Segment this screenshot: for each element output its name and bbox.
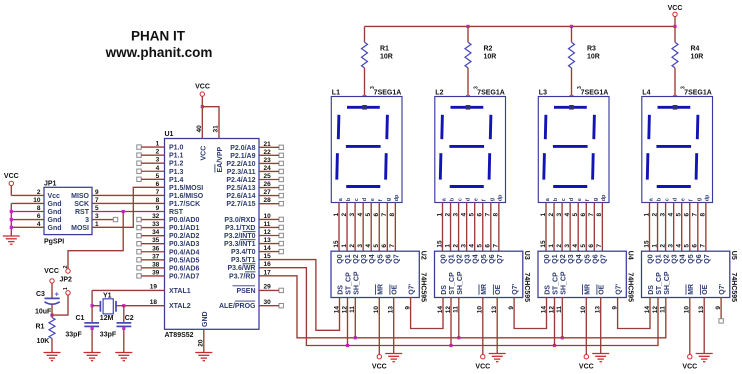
- svg-text:c: c: [664, 198, 670, 201]
- svg-text:15: 15: [540, 240, 547, 248]
- svg-text:12M: 12M: [100, 315, 114, 322]
- svg-text:16: 16: [264, 261, 272, 268]
- svg-text:C1: C1: [76, 315, 85, 322]
- svg-text:R4: R4: [691, 46, 700, 53]
- svg-text:40: 40: [196, 125, 203, 133]
- svg-text:1: 1: [341, 244, 348, 248]
- svg-text:7: 7: [596, 244, 603, 248]
- svg-text:P1.3: P1.3: [169, 169, 184, 176]
- svg-text:P1.6/MISO: P1.6/MISO: [169, 193, 204, 200]
- svg-text:VCC: VCC: [475, 364, 490, 371]
- svg-text:MOSI: MOSI: [71, 225, 89, 232]
- svg-text:74HC595: 74HC595: [420, 273, 427, 303]
- svg-text:ST_CP: ST_CP: [656, 272, 663, 295]
- svg-text:SH_CP: SH_CP: [664, 271, 671, 295]
- svg-text:Q7: Q7: [704, 254, 711, 263]
- svg-text:33pF: 33pF: [100, 332, 117, 339]
- svg-text:c: c: [457, 198, 463, 201]
- svg-text:DS: DS: [648, 285, 655, 295]
- svg-text:d: d: [465, 198, 471, 201]
- svg-text:Q5: Q5: [481, 254, 488, 263]
- svg-text:Q6: Q6: [385, 254, 392, 263]
- svg-text:VCC: VCC: [372, 364, 387, 371]
- svg-text:d: d: [672, 198, 678, 201]
- svg-text:P0.4/AD4: P0.4/AD4: [169, 249, 199, 256]
- svg-text:Q7: Q7: [600, 254, 607, 263]
- svg-text:VCC: VCC: [668, 5, 683, 12]
- svg-text:Q3: Q3: [465, 254, 472, 263]
- svg-text:dp: dp: [394, 194, 400, 201]
- svg-text:10uF: 10uF: [35, 309, 52, 316]
- svg-text:5: 5: [684, 244, 691, 248]
- svg-text:RST: RST: [75, 209, 90, 216]
- svg-text:MR: MR: [688, 284, 695, 295]
- svg-text:Q7': Q7': [616, 283, 623, 294]
- svg-text:P0.1/AD1: P0.1/AD1: [169, 225, 199, 232]
- svg-text:Q0: Q0: [337, 254, 344, 263]
- svg-text:Q3: Q3: [672, 254, 679, 263]
- svg-text:VCC: VCC: [44, 268, 59, 275]
- svg-text:18: 18: [150, 299, 158, 306]
- svg-text:33pF: 33pF: [65, 332, 82, 339]
- svg-text:P3.1/TXD: P3.1/TXD: [225, 225, 255, 232]
- svg-text:Q4: Q4: [473, 254, 480, 263]
- svg-text:P3.4/T0: P3.4/T0: [231, 249, 256, 256]
- svg-text:d: d: [569, 198, 575, 201]
- svg-text:P2.5/A13: P2.5/A13: [226, 185, 255, 192]
- svg-text:e: e: [577, 198, 583, 201]
- svg-text:f: f: [689, 199, 695, 201]
- svg-text:Q3: Q3: [361, 254, 368, 263]
- svg-text:3: 3: [667, 244, 674, 248]
- svg-text:1: 1: [444, 244, 451, 248]
- svg-text:SH_CP: SH_CP: [560, 271, 567, 295]
- svg-text:MR: MR: [377, 284, 384, 295]
- svg-text:g: g: [593, 198, 599, 201]
- svg-text:P0.2/AD2: P0.2/AD2: [169, 233, 199, 240]
- svg-text:Q4: Q4: [369, 254, 376, 263]
- svg-text:d: d: [362, 198, 368, 201]
- svg-text:Q6: Q6: [592, 254, 599, 263]
- svg-text:1: 1: [651, 244, 658, 248]
- svg-text:U3: U3: [523, 251, 530, 260]
- svg-text:ST_CP: ST_CP: [553, 272, 560, 295]
- svg-text:ST_CP: ST_CP: [449, 272, 456, 295]
- svg-text:P2.1/A9: P2.1/A9: [230, 153, 255, 160]
- svg-text:www.phanit.com: www.phanit.com: [105, 45, 213, 60]
- svg-text:L4: L4: [642, 89, 650, 96]
- svg-text:5: 5: [477, 244, 484, 248]
- svg-text:R3: R3: [587, 46, 596, 53]
- svg-text:15: 15: [333, 240, 340, 248]
- svg-text:3: 3: [370, 86, 376, 89]
- svg-text:7: 7: [700, 244, 707, 248]
- svg-text:Q3: Q3: [568, 254, 575, 263]
- svg-text:P1.7/SCK: P1.7/SCK: [169, 201, 200, 208]
- svg-text:6: 6: [692, 244, 699, 248]
- svg-text:dp: dp: [601, 194, 607, 201]
- svg-text:Gnd: Gnd: [48, 225, 62, 232]
- svg-text:10R: 10R: [380, 54, 393, 61]
- svg-text:6: 6: [485, 244, 492, 248]
- svg-text:Q0: Q0: [441, 254, 448, 263]
- svg-text:10R: 10R: [484, 54, 497, 61]
- svg-text:P0.6/AD6: P0.6/AD6: [169, 265, 199, 272]
- svg-text:P1.5/MOSI: P1.5/MOSI: [169, 185, 203, 192]
- svg-text:MR: MR: [584, 284, 591, 295]
- svg-text:R2: R2: [484, 46, 493, 53]
- svg-text:4: 4: [469, 244, 476, 248]
- svg-text:SH_CP: SH_CP: [353, 271, 360, 295]
- svg-text:3: 3: [85, 217, 89, 224]
- svg-text:P0.3/AD3: P0.3/AD3: [169, 241, 199, 248]
- svg-text:P2.7/A15: P2.7/A15: [226, 201, 255, 208]
- svg-text:Gnd: Gnd: [48, 201, 62, 208]
- svg-text:3: 3: [577, 86, 583, 89]
- svg-text:6: 6: [381, 244, 388, 248]
- svg-text:P1.4: P1.4: [169, 177, 184, 184]
- svg-text:P1.1: P1.1: [169, 153, 184, 160]
- svg-text:PgSPI: PgSPI: [44, 239, 64, 246]
- svg-text:PHAN IT: PHAN IT: [131, 29, 186, 44]
- svg-text:VCC: VCC: [4, 173, 19, 180]
- svg-text:SCK: SCK: [74, 201, 89, 208]
- svg-text:P2.6/A14: P2.6/A14: [226, 193, 255, 200]
- svg-text:P2.0/A8: P2.0/A8: [230, 145, 255, 152]
- svg-text:3: 3: [681, 86, 687, 89]
- svg-text:R1: R1: [36, 324, 45, 331]
- svg-text:74HC595: 74HC595: [730, 273, 737, 303]
- svg-text:7SEG1A: 7SEG1A: [477, 89, 505, 96]
- svg-text:VCC: VCC: [579, 364, 594, 371]
- svg-text:2: 2: [349, 244, 356, 248]
- svg-text:RST: RST: [169, 209, 184, 216]
- svg-text:dp: dp: [498, 194, 504, 201]
- svg-text:DS: DS: [545, 285, 552, 295]
- svg-text:P3.5/T1: P3.5/T1: [231, 257, 256, 264]
- svg-text:17: 17: [264, 269, 272, 276]
- svg-text:1: 1: [548, 244, 555, 248]
- svg-text:10R: 10R: [587, 54, 600, 61]
- svg-text:ST_CP: ST_CP: [346, 272, 353, 295]
- svg-text:30: 30: [264, 299, 272, 306]
- svg-text:P1.2: P1.2: [169, 161, 184, 168]
- svg-text:L1: L1: [332, 89, 340, 96]
- svg-text:g: g: [697, 198, 703, 201]
- svg-text:DS: DS: [441, 285, 448, 295]
- svg-text:5: 5: [373, 244, 380, 248]
- svg-text:Q1: Q1: [449, 254, 456, 263]
- svg-text:MR: MR: [481, 284, 488, 295]
- svg-text:74HC595: 74HC595: [627, 273, 634, 303]
- svg-text:1: 1: [63, 287, 69, 290]
- svg-text:dp: dp: [705, 194, 711, 201]
- svg-text:20: 20: [197, 339, 204, 347]
- svg-text:e: e: [474, 198, 480, 201]
- svg-text:2: 2: [452, 244, 459, 248]
- svg-text:3: 3: [564, 244, 571, 248]
- svg-text:15: 15: [643, 240, 650, 248]
- svg-text:P3.0/RXD: P3.0/RXD: [224, 217, 255, 224]
- svg-text:3: 3: [460, 244, 467, 248]
- svg-text:7SEG1A: 7SEG1A: [581, 89, 609, 96]
- svg-text:P0.0/AD0: P0.0/AD0: [169, 217, 199, 224]
- svg-text:P3.2/INT0: P3.2/INT0: [224, 233, 256, 240]
- svg-text:Q6: Q6: [489, 254, 496, 263]
- svg-text:2: 2: [556, 244, 563, 248]
- svg-text:P3.3/INT1: P3.3/INT1: [224, 241, 256, 248]
- svg-text:P3.7/RD: P3.7/RD: [229, 273, 255, 280]
- svg-text:P3.6/WR: P3.6/WR: [227, 265, 255, 272]
- svg-text:MISO: MISO: [71, 193, 89, 200]
- svg-text:P2.4/A12: P2.4/A12: [226, 177, 255, 184]
- svg-text:OE: OE: [702, 284, 709, 294]
- svg-text:Q2: Q2: [560, 254, 567, 263]
- svg-text:VCC: VCC: [200, 146, 207, 161]
- svg-text:15: 15: [436, 240, 443, 248]
- svg-text:4: 4: [676, 244, 683, 248]
- svg-text:Q7: Q7: [393, 254, 400, 263]
- svg-text:Q6: Q6: [696, 254, 703, 263]
- svg-text:f: f: [585, 199, 591, 201]
- svg-text:f: f: [482, 199, 488, 201]
- svg-text:SH_CP: SH_CP: [457, 271, 464, 295]
- svg-text:+: +: [55, 292, 59, 299]
- svg-text:Q7': Q7': [512, 283, 519, 294]
- svg-text:U4: U4: [627, 251, 634, 260]
- svg-text:g: g: [490, 198, 496, 201]
- svg-text:10K: 10K: [37, 338, 50, 345]
- svg-text:2: 2: [63, 265, 69, 268]
- svg-text:U2: U2: [420, 251, 427, 260]
- svg-text:ALE/PROG: ALE/PROG: [219, 303, 256, 310]
- svg-text:6: 6: [588, 244, 595, 248]
- svg-text:29: 29: [264, 284, 272, 291]
- svg-text:L2: L2: [435, 89, 443, 96]
- svg-text:Q7: Q7: [497, 254, 504, 263]
- svg-text:Q2: Q2: [664, 254, 671, 263]
- svg-text:7: 7: [389, 244, 396, 248]
- svg-text:e: e: [681, 198, 687, 201]
- svg-text:2: 2: [659, 244, 666, 248]
- svg-text:P0.7/AD7: P0.7/AD7: [169, 273, 199, 280]
- svg-text:OE: OE: [495, 284, 502, 294]
- svg-text:4: 4: [365, 244, 372, 248]
- svg-text:Q0: Q0: [648, 254, 655, 263]
- svg-text:JP1: JP1: [44, 181, 57, 188]
- svg-text:VCC: VCC: [682, 364, 697, 371]
- svg-text:P1.0: P1.0: [169, 145, 184, 152]
- svg-text:Q2: Q2: [457, 254, 464, 263]
- svg-text:EA/VPP: EA/VPP: [217, 146, 224, 172]
- svg-text:JP2: JP2: [60, 277, 73, 284]
- svg-text:Gnd: Gnd: [48, 217, 62, 224]
- svg-text:L3: L3: [539, 89, 547, 96]
- svg-text:Q7': Q7': [719, 283, 726, 294]
- svg-text:74HC595: 74HC595: [523, 273, 530, 303]
- svg-text:OE: OE: [392, 284, 399, 294]
- svg-text:Q1: Q1: [656, 254, 663, 263]
- svg-text:Q5: Q5: [688, 254, 695, 263]
- svg-text:7SEG1A: 7SEG1A: [684, 89, 712, 96]
- svg-text:g: g: [386, 198, 392, 201]
- svg-text:3: 3: [474, 86, 480, 89]
- svg-text:3: 3: [357, 244, 364, 248]
- svg-text:31: 31: [213, 125, 220, 133]
- svg-text:Q0: Q0: [544, 254, 551, 263]
- svg-text:U1: U1: [165, 131, 174, 138]
- svg-text:U5: U5: [730, 251, 737, 260]
- svg-text:XTAL1: XTAL1: [169, 288, 191, 295]
- svg-text:Q1: Q1: [552, 254, 559, 263]
- svg-text:XTAL2: XTAL2: [169, 303, 191, 310]
- svg-text:GND: GND: [202, 311, 209, 327]
- svg-text:R1: R1: [380, 46, 389, 53]
- svg-text:OE: OE: [599, 284, 606, 294]
- svg-text:DS: DS: [338, 285, 345, 295]
- svg-text:P0.5/AD5: P0.5/AD5: [169, 257, 199, 264]
- svg-text:P2.2/A10: P2.2/A10: [226, 161, 255, 168]
- svg-text:19: 19: [150, 284, 158, 291]
- svg-text:15: 15: [264, 253, 272, 260]
- svg-text:c: c: [354, 198, 360, 201]
- svg-text:5: 5: [580, 244, 587, 248]
- svg-text:AT89S52: AT89S52: [165, 332, 194, 339]
- svg-text:e: e: [370, 198, 376, 201]
- svg-text:Q5: Q5: [584, 254, 591, 263]
- svg-text:4: 4: [572, 244, 579, 248]
- svg-text:Q1: Q1: [345, 254, 352, 263]
- svg-text:C3: C3: [36, 291, 45, 298]
- svg-text:Q5: Q5: [377, 254, 384, 263]
- svg-text:Q7': Q7': [409, 283, 416, 294]
- svg-text:10R: 10R: [691, 54, 704, 61]
- svg-text:Vcc: Vcc: [48, 193, 61, 200]
- svg-text:Gnd: Gnd: [48, 209, 62, 216]
- svg-text:Q4: Q4: [680, 254, 687, 263]
- svg-text:7: 7: [493, 244, 500, 248]
- svg-text:c: c: [561, 198, 567, 201]
- svg-text:VCC: VCC: [195, 83, 210, 90]
- svg-text:Q2: Q2: [353, 254, 360, 263]
- svg-text:f: f: [378, 199, 384, 201]
- svg-text:Q4: Q4: [576, 254, 583, 263]
- svg-text:P2.3/A11: P2.3/A11: [227, 169, 256, 176]
- svg-text:PSEN: PSEN: [236, 288, 255, 295]
- svg-text:7SEG1A: 7SEG1A: [374, 89, 402, 96]
- svg-text:C2: C2: [125, 315, 134, 322]
